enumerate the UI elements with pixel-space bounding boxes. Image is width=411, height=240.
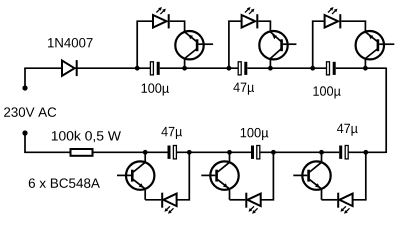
resistor R1 100k 0.5W [71, 149, 93, 156]
capacitor C5 100u [251, 146, 260, 159]
LED D3 light arrows [245, 7, 255, 14]
wire Q5 collector to LED D6 [230, 199, 246, 201]
LED D7 [337, 193, 352, 208]
transistor Q5 (BC548A) [201, 152, 238, 200]
wire top terminal stub to top rail [24, 68, 26, 88]
wire Q6 collector to LED D7 [322, 199, 338, 201]
capacitor C2 47u [238, 62, 247, 75]
junction top rail at riser1 [135, 66, 140, 71]
junction top rail at riser2 [227, 66, 232, 71]
transistor Q4 (BC548A) [117, 152, 154, 200]
wire bottom rail segment 4 (C6 to bottom-right corner) [348, 151, 386, 153]
label D1 value 1N4007 [48, 38, 93, 48]
label 6 x BC548A [29, 178, 100, 188]
label C6 value 47u [337, 124, 358, 136]
LED D5 light arrows [164, 206, 173, 214]
transistor Q3 (BC548A) [356, 31, 395, 68]
wire bottom rail segment 2 (C4 to C5) [176, 151, 251, 153]
wire LED D7 anode riser to bottom rail [353, 152, 366, 200]
junction top rail at Q2 [268, 66, 273, 71]
LED D4 light arrows [328, 7, 338, 14]
LED D6 light arrows [249, 206, 258, 214]
junction bottom rail at Q5 [227, 150, 232, 155]
label 230V AC [4, 107, 56, 117]
junction bottom rail at Q4 [143, 150, 148, 155]
wire LED D3 cathode to Q2 [258, 21, 270, 32]
label R1 value 100k 0,5 W [52, 131, 121, 143]
wire top rail segment 2 (C1 to C2) [160, 67, 239, 69]
LED D5 [161, 193, 176, 208]
wire top rail segment 4 (C3 to top-right corner) [336, 67, 387, 69]
LED D6 [245, 193, 260, 208]
wire riser stage1 top (rail to LED D2) [137, 21, 153, 68]
transistor Q1 (BC548A) [175, 31, 213, 68]
wire Q4 collector to LED D5 [145, 199, 161, 201]
label C4 value 47u [161, 127, 182, 139]
transistor Q2 (BC548A) [259, 31, 296, 68]
capacitor C1 100u [150, 62, 159, 75]
wire bottom rail segment 1 (terminal corner to C4) [25, 151, 168, 154]
junction bottom rail at Q6 [319, 150, 324, 155]
capacitor C4 47u [168, 146, 177, 159]
wire riser stage3 top (rail to LED D4) [313, 21, 325, 68]
node AC input top terminal [22, 85, 27, 90]
label C5 value 100u [241, 128, 269, 140]
LED D4 [325, 14, 342, 28]
junction top rail at Q3 [363, 66, 368, 71]
node AC input bottom terminal [22, 130, 27, 135]
transistor Q6 (BC548A) [293, 152, 330, 200]
wire top rail segment 1 (terminal corner to C1) [25, 67, 150, 70]
junction bottom rail at LED D7 riser [363, 150, 368, 155]
capacitor C6 47u [339, 146, 348, 159]
wire top rail segment 3 (C2 to C3) [247, 67, 326, 69]
wire LED D5 anode riser to bottom rail [177, 152, 190, 200]
junction bottom rail at LED D6 riser [271, 150, 276, 155]
LED D2 light arrows [156, 7, 166, 14]
junction top rail at Q1 [182, 66, 187, 71]
wire bottom terminal stub to bottom rail [24, 133, 26, 152]
wire riser stage2 top (rail to LED D3) [229, 21, 242, 68]
LED D2 [153, 14, 170, 28]
LED D3 [242, 14, 259, 28]
wire right edge vertical [385, 68, 387, 154]
diode D1 1N4007 [62, 60, 78, 76]
label C2 value 47u [233, 83, 254, 95]
wire LED D4 cathode to Q3 [341, 21, 365, 32]
label C1 value 100u [142, 83, 169, 95]
wire LED D6 anode riser to bottom rail [261, 152, 274, 200]
wire bottom rail segment 3 (C5 to C6) [260, 151, 339, 153]
wire LED D2 cathode to Q1 [170, 21, 185, 32]
junction top rail at riser3 [310, 66, 315, 71]
LED D7 light arrows [340, 206, 349, 214]
junction bottom rail at LED D5 riser [187, 150, 192, 155]
capacitor C3 100u [327, 62, 336, 75]
label C3 value 100u [313, 86, 340, 98]
